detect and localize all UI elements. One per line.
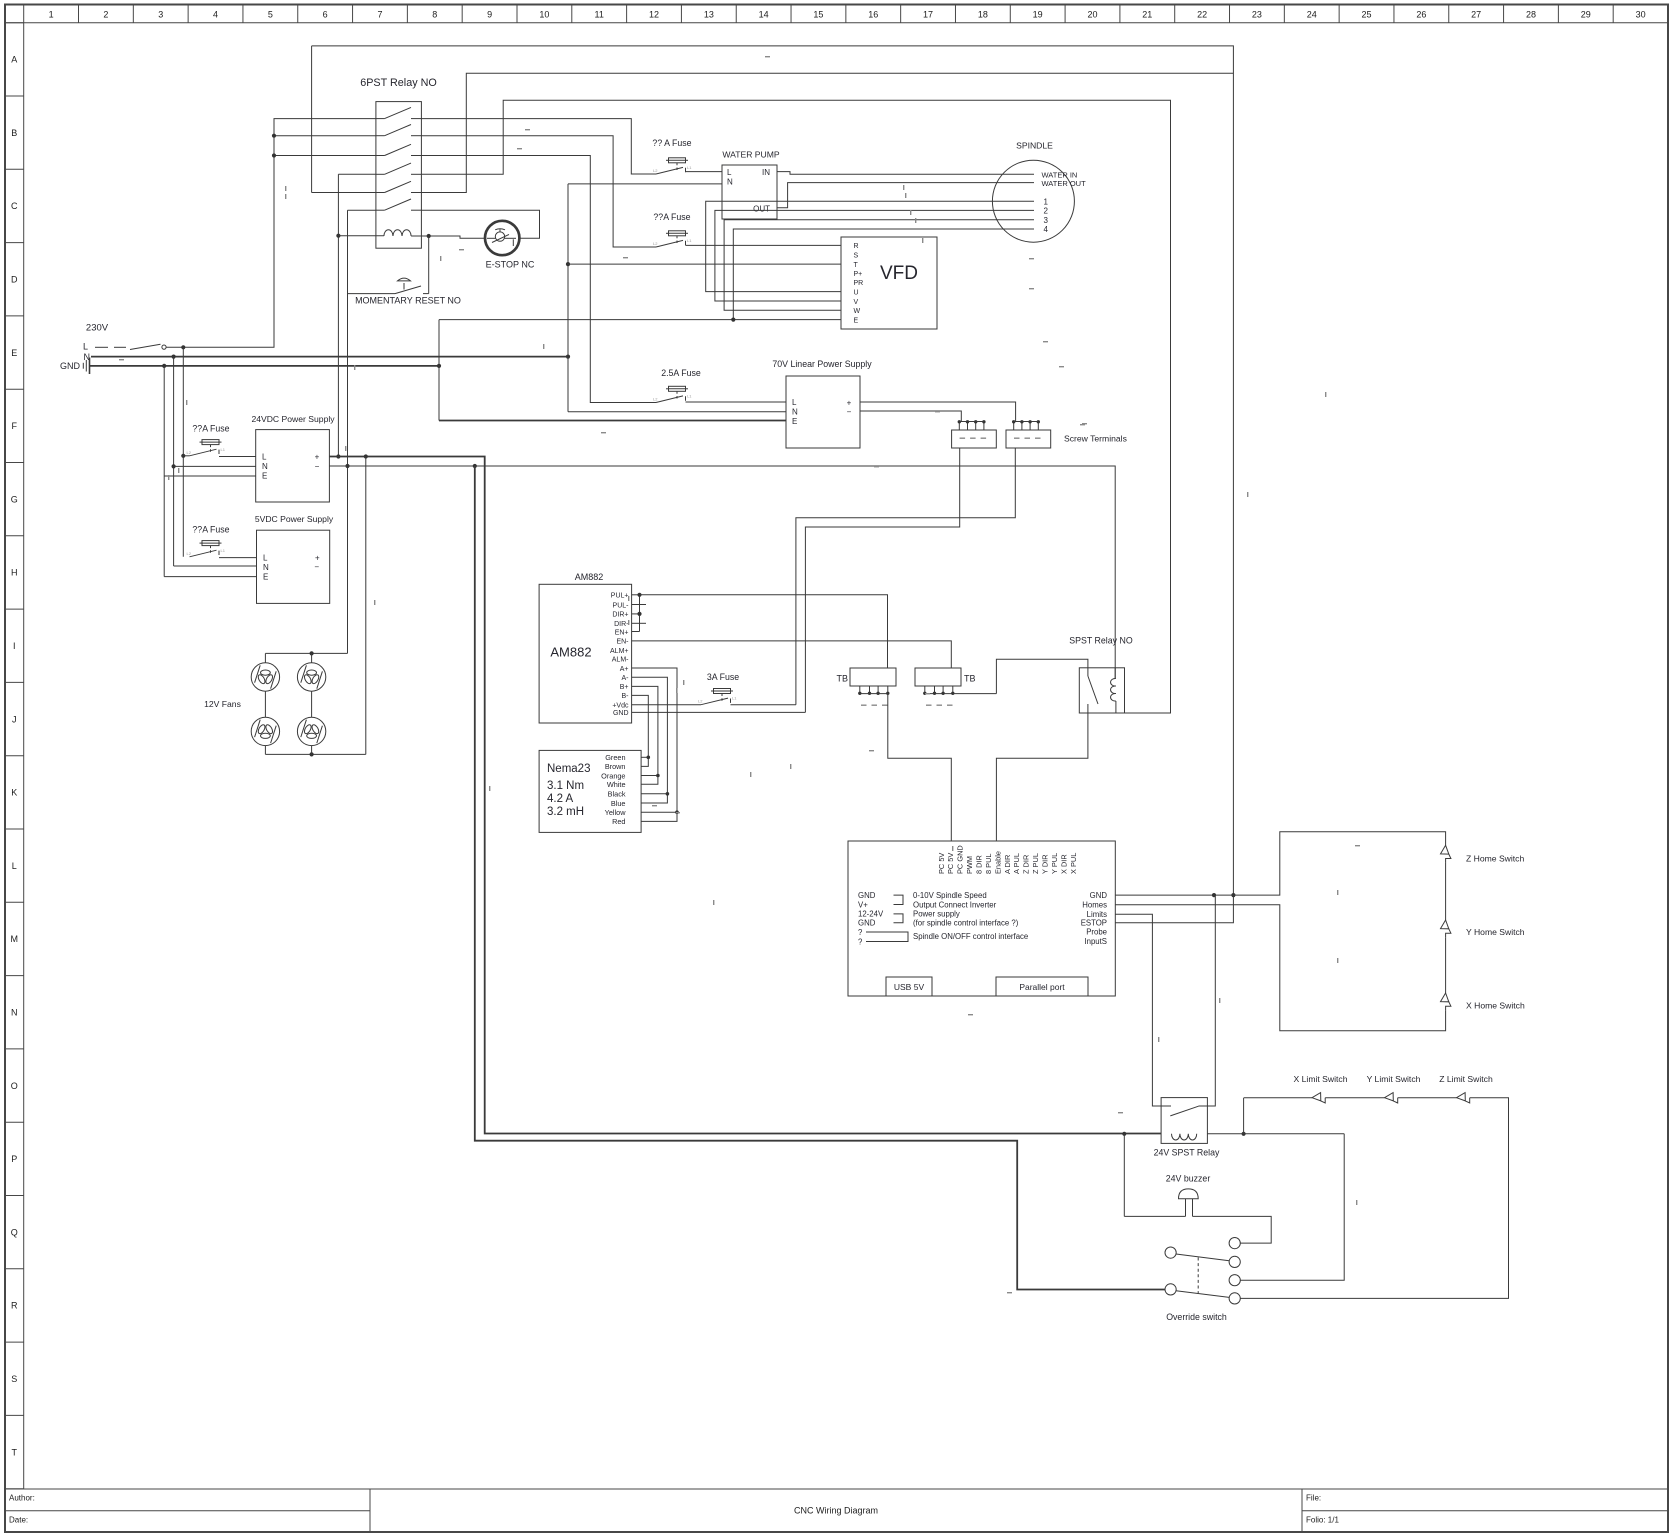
- svg-text:PC 5V: PC 5V: [946, 853, 955, 874]
- svg-text:16: 16: [868, 10, 878, 20]
- svg-text:5VDC Power Supply: 5VDC Power Supply: [255, 514, 334, 524]
- svg-text:A PUL: A PUL: [1012, 853, 1021, 874]
- fan M3: [251, 717, 279, 745]
- wire F4 to 24V L: [219, 456, 256, 458]
- svg-text:L2: L2: [187, 551, 192, 556]
- svg-text:E: E: [262, 472, 267, 481]
- svg-text:N: N: [727, 178, 733, 187]
- junction N to VFD-T / 70V: [566, 355, 570, 359]
- wire pump IN to spindle WATER IN: [777, 172, 1034, 175]
- wire VFD W to spindle 3: [724, 220, 1034, 311]
- svg-text:6PST Relay NO: 6PST Relay NO: [360, 77, 437, 89]
- svg-text:S: S: [11, 1374, 17, 1384]
- wire GND rail: [90, 365, 440, 367]
- svg-text:?: ?: [858, 928, 863, 937]
- svg-text:DIR-: DIR-: [614, 621, 629, 628]
- junction latch at -24: [345, 464, 349, 468]
- svg-text:V: V: [854, 299, 859, 306]
- svg-text:N: N: [792, 408, 798, 417]
- svg-text:USB 5V: USB 5V: [894, 982, 925, 992]
- wire GND drop: [163, 366, 165, 577]
- svg-text:R: R: [11, 1301, 18, 1311]
- wire K1 coil right to E-STOP: [411, 236, 485, 238]
- svg-text:VFD: VFD: [880, 263, 918, 284]
- wire buzzer left to coil tap: [1123, 1134, 1125, 1217]
- svg-text:X DIR: X DIR: [1059, 854, 1068, 874]
- svg-text:OUT: OUT: [753, 205, 770, 214]
- svg-text:Z Limit Switch: Z Limit Switch: [1439, 1074, 1493, 1084]
- svg-text:(for spindle control interface: (for spindle control interface ?): [913, 919, 1019, 928]
- svg-text:Black: Black: [608, 790, 626, 799]
- svg-text:Author:: Author:: [9, 1494, 35, 1503]
- wire VFD V to spindle 2: [715, 210, 1034, 301]
- svg-text:29: 29: [1581, 10, 1591, 20]
- wire F6 to riser: [731, 704, 796, 706]
- svg-text:24V buzzer: 24V buzzer: [1166, 1174, 1211, 1184]
- wire Z-Y home link: [1445, 863, 1447, 920]
- svg-text:TB: TB: [964, 674, 976, 684]
- svg-text:PWM: PWM: [965, 856, 974, 874]
- wire F4 left: [183, 455, 189, 457]
- wire N line: [91, 356, 568, 358]
- svg-text:10: 10: [539, 10, 549, 20]
- svg-text:1: 1: [1044, 197, 1049, 206]
- svg-text:WATER PUMP: WATER PUMP: [722, 150, 780, 160]
- wire 70V + to screw block 2: [860, 402, 1016, 422]
- svg-text:7: 7: [377, 10, 382, 20]
- wire buzzer right to override contact 1: [1193, 1216, 1272, 1243]
- junction buzzer tap: [1122, 1132, 1126, 1136]
- svg-text:19: 19: [1033, 10, 1043, 20]
- wire row6-left and latch vertical: [348, 209, 376, 211]
- svg-text:N: N: [11, 1007, 18, 1017]
- svg-text:N: N: [263, 563, 269, 572]
- svg-text:24V SPST Relay: 24V SPST Relay: [1154, 1148, 1220, 1158]
- wire DIR- stub: [632, 622, 646, 624]
- svg-text:??A Fuse: ??A Fuse: [653, 212, 690, 222]
- svg-text:Date:: Date:: [9, 1516, 28, 1525]
- svg-text:Y Limit Switch: Y Limit Switch: [1367, 1074, 1421, 1084]
- svg-text:??A Fuse: ??A Fuse: [192, 525, 229, 535]
- wire limit chain: [1244, 1097, 1312, 1099]
- svg-text:IN: IN: [762, 168, 770, 177]
- wire B+ to Orange/White: [632, 686, 658, 784]
- svg-text:PUL-: PUL-: [613, 602, 630, 609]
- svg-text:Override switch: Override switch: [1166, 1312, 1227, 1322]
- svg-text:Z Home Switch: Z Home Switch: [1466, 854, 1524, 864]
- svg-text:?? A Fuse: ?? A Fuse: [652, 138, 691, 148]
- svg-text:ALM-: ALM-: [612, 657, 629, 664]
- svg-text:11: 11: [595, 10, 604, 20]
- junction -24 long rail tap: [473, 464, 477, 468]
- wire fan stubs: [264, 653, 266, 662]
- svg-text:L2: L2: [653, 397, 658, 402]
- wire TB2 up to SPST relay contact: [996, 659, 1088, 693]
- svg-text:V+: V+: [858, 900, 868, 909]
- svg-text:L: L: [263, 554, 268, 563]
- svg-text:6: 6: [323, 10, 328, 20]
- svg-text:3A Fuse: 3A Fuse: [707, 672, 739, 682]
- svg-text:U: U: [854, 289, 859, 296]
- wire Black stub: [641, 793, 667, 795]
- svg-text:Y DIR: Y DIR: [1041, 854, 1050, 874]
- svg-text:Spindle ON/OFF control interfa: Spindle ON/OFF control interface: [913, 932, 1028, 941]
- svg-text:24VDC Power Supply: 24VDC Power Supply: [251, 414, 335, 424]
- junction F4 tap: [181, 454, 185, 458]
- svg-text:X Limit Switch: X Limit Switch: [1294, 1074, 1348, 1084]
- wire 70V N input: [568, 411, 786, 413]
- svg-text:L1: L1: [221, 447, 226, 452]
- wire 70V - to screw block 1: [860, 411, 961, 422]
- svg-text:L2: L2: [698, 699, 703, 704]
- junction N-vert at VFD T: [566, 262, 570, 266]
- svg-text:Output Connect Inverter: Output Connect Inverter: [913, 900, 997, 909]
- svg-text:L: L: [792, 398, 797, 407]
- svg-text:ALM+: ALM+: [610, 648, 628, 655]
- svg-text:Brown: Brown: [605, 762, 626, 771]
- svg-text:4: 4: [213, 10, 218, 20]
- svg-text:L: L: [262, 453, 267, 462]
- junction GND at VFD-E drop: [437, 364, 441, 368]
- wire TB1 to controller: [888, 694, 952, 841]
- junction Orange: [656, 774, 660, 778]
- junction at +24 tap: [336, 454, 340, 458]
- svg-text:Screw Terminals: Screw Terminals: [1064, 434, 1127, 444]
- svg-text:+Vdc: +Vdc: [612, 703, 629, 710]
- svg-text:0-10V Spindle Speed: 0-10V Spindle Speed: [913, 891, 987, 900]
- wire row4-right to SPST relay right side: [421, 100, 1170, 713]
- junction Green: [647, 756, 651, 760]
- svg-text:18: 18: [978, 10, 988, 20]
- svg-text:Probe: Probe: [1086, 928, 1107, 937]
- svg-text:−: −: [847, 408, 852, 417]
- wire relay row2-right to F2: [421, 136, 656, 247]
- relay K2 coil: [1111, 678, 1116, 701]
- junction bracket PUL+: [637, 593, 641, 597]
- wire pump N return: [568, 183, 722, 185]
- svg-text:Parallel port: Parallel port: [1019, 982, 1065, 992]
- svg-text:B+: B+: [620, 684, 629, 691]
- wire Y-X home link: [1445, 937, 1447, 993]
- junction fans top: [310, 651, 314, 655]
- wire screw2 to AM882 +Vdc riser: [796, 448, 1015, 705]
- svg-text:8 PUL: 8 PUL: [984, 853, 993, 874]
- svg-text:2: 2: [1044, 207, 1049, 216]
- svg-text:A: A: [11, 55, 17, 65]
- wire K1 coil left to +24: [338, 173, 376, 175]
- wire N to VFD T: [568, 263, 841, 265]
- junction fans feed: [364, 454, 368, 458]
- svg-text:L2: L2: [653, 241, 658, 246]
- svg-text:L: L: [83, 342, 88, 352]
- svg-text:2.5A Fuse: 2.5A Fuse: [661, 368, 701, 378]
- junction coil-right: [427, 234, 431, 238]
- wire 24V E input: [164, 475, 256, 477]
- wire SPST relay contact return to controller: [996, 704, 1088, 841]
- svg-text:Green: Green: [605, 753, 625, 762]
- fan M1: [251, 663, 279, 691]
- wire top rail from 6PST relay row5-left to right page rail: [312, 46, 1234, 923]
- svg-text:21: 21: [1142, 10, 1152, 20]
- svg-text:−: −: [314, 563, 319, 572]
- wire L drop to F4 and F5: [182, 347, 184, 557]
- svg-text:L1: L1: [687, 394, 692, 399]
- wire +24 output rail: [329, 457, 1161, 1134]
- wire screw1 to AM882 GND riser: [805, 448, 959, 712]
- svg-text:GND: GND: [858, 891, 876, 900]
- junction chain riser: [1242, 1132, 1246, 1136]
- wire F2 to VFD R: [686, 244, 842, 246]
- svg-text:InputS: InputS: [1084, 937, 1107, 946]
- svg-text:R: R: [854, 243, 859, 250]
- junction row3-left: [272, 153, 276, 157]
- switch Y Limit Switch: [1385, 1093, 1394, 1101]
- svg-text:8: 8: [432, 10, 437, 20]
- wire row5-left vertical: [311, 46, 313, 193]
- svg-text:+: +: [847, 399, 852, 408]
- svg-text:22: 22: [1197, 10, 1207, 20]
- svg-text:I: I: [13, 641, 16, 651]
- junction coil-left: [336, 234, 340, 238]
- svg-text:L1: L1: [221, 548, 226, 553]
- svg-text:White: White: [607, 780, 626, 789]
- wire relay row3-right to F3: [421, 156, 656, 403]
- relay K1 coil: [384, 230, 411, 236]
- svg-text:PC 5V: PC 5V: [937, 853, 946, 874]
- wire row6-right to E-STOP top: [421, 210, 539, 238]
- svg-text:P+: P+: [854, 271, 863, 278]
- wire EN- to TB2: [632, 641, 952, 668]
- terminal block TB1: [850, 668, 896, 686]
- svg-text:E-STOP NC: E-STOP NC: [486, 260, 535, 270]
- svg-text:A-: A-: [622, 675, 630, 682]
- svg-text:3.1 Nm: 3.1 Nm: [547, 780, 584, 792]
- wire 5V E input: [164, 576, 256, 578]
- svg-text:4: 4: [1044, 225, 1049, 234]
- svg-text:E: E: [792, 417, 797, 426]
- wire earth to 70V E: [439, 420, 786, 422]
- wire +Vdc to F6: [632, 704, 701, 706]
- svg-text:1: 1: [49, 10, 54, 20]
- svg-text:3: 3: [1044, 216, 1049, 225]
- svg-text:AM882: AM882: [550, 645, 591, 660]
- svg-text:TB: TB: [836, 674, 848, 684]
- wire GND to riser: [632, 711, 806, 713]
- svg-text:L: L: [12, 861, 17, 871]
- svg-text:30: 30: [1636, 10, 1646, 20]
- svg-text:L1: L1: [687, 238, 692, 243]
- svg-text:O: O: [11, 1081, 18, 1091]
- svg-text:??A Fuse: ??A Fuse: [192, 424, 229, 434]
- junction Yellow: [675, 810, 679, 814]
- wire pump OUT to spindle WATER OUT: [777, 183, 1034, 208]
- svg-text:WATER OUT: WATER OUT: [1042, 179, 1087, 188]
- junction row2-left: [272, 134, 276, 138]
- svg-text:2: 2: [103, 10, 108, 20]
- wire L to relay contacts 1-3 vertical: [167, 119, 376, 348]
- svg-text:G: G: [11, 494, 18, 504]
- wire B- to Green/Brown: [632, 695, 649, 766]
- svg-text:Z DIR: Z DIR: [1022, 855, 1031, 874]
- wire X-Y limit link: [1325, 1097, 1384, 1099]
- svg-text:J: J: [12, 714, 17, 724]
- svg-text:14: 14: [759, 10, 769, 20]
- svg-text:70V Linear Power Supply: 70V Linear Power Supply: [772, 359, 872, 369]
- svg-text:27: 27: [1471, 10, 1481, 20]
- svg-text:28: 28: [1526, 10, 1536, 20]
- wire fans bottom bus: [265, 753, 365, 755]
- svg-text:13: 13: [704, 10, 714, 20]
- svg-text:GND: GND: [1090, 891, 1108, 900]
- svg-text:File:: File:: [1306, 1494, 1321, 1503]
- svg-text:F: F: [12, 421, 18, 431]
- svg-text:SPST Relay NO: SPST Relay NO: [1069, 636, 1133, 646]
- svg-text:E: E: [263, 573, 268, 582]
- block VFD: [841, 237, 937, 329]
- wire relay row2-left stub: [274, 135, 376, 137]
- junction L at fuse drop: [181, 345, 185, 349]
- switch on L line: [95, 346, 108, 348]
- wire A- to Black/Blue: [632, 677, 668, 803]
- junction 24V N: [172, 464, 176, 468]
- svg-text:T: T: [12, 1447, 18, 1457]
- terminal block TB2: [915, 668, 961, 686]
- svg-text:12: 12: [649, 10, 659, 20]
- svg-text:Red: Red: [612, 817, 625, 826]
- svg-text:12-24V: 12-24V: [858, 910, 884, 919]
- svg-text:3.2 mH: 3.2 mH: [547, 806, 584, 818]
- svg-text:CNC Wiring Diagram: CNC Wiring Diagram: [794, 1506, 878, 1516]
- motor M5 Nema23: [539, 750, 641, 832]
- wire VFD E to spindle 4 and GND rail: [439, 319, 841, 321]
- svg-text:PC GND: PC GND: [956, 845, 965, 874]
- junction bracket DIR+: [637, 612, 641, 616]
- wire 24V relay contact return: [1207, 895, 1215, 1106]
- junction N to supplies: [172, 355, 176, 359]
- svg-text:26: 26: [1416, 10, 1426, 20]
- wire PUL+ trunk to TB1: [640, 595, 888, 668]
- svg-text:AM882: AM882: [575, 572, 604, 582]
- wire Yellow stub: [641, 811, 677, 813]
- wire 5V N input: [174, 565, 257, 567]
- junction on right rail at controller GND row: [1231, 893, 1235, 897]
- svg-text:E: E: [854, 317, 859, 324]
- svg-text:+: +: [315, 453, 320, 462]
- wire -24 long rail: [475, 466, 1165, 1290]
- svg-text:Z PUL: Z PUL: [1031, 853, 1040, 874]
- port Parallel port: [996, 977, 1088, 996]
- svg-text:X Home Switch: X Home Switch: [1466, 1001, 1525, 1011]
- wire chain end to override contact 4: [1240, 1098, 1508, 1299]
- svg-text:PR: PR: [854, 280, 864, 287]
- svg-text:3: 3: [158, 10, 163, 20]
- wire Y-Z limit link: [1398, 1097, 1457, 1099]
- junction VFD-E spindle4: [731, 318, 735, 322]
- svg-text:DIR+: DIR+: [612, 612, 628, 619]
- svg-text:GND: GND: [613, 710, 629, 717]
- wire 24V N input: [174, 465, 256, 467]
- svg-text:Y PUL: Y PUL: [1050, 853, 1059, 874]
- svg-text:23: 23: [1252, 10, 1262, 20]
- svg-text:−: −: [315, 462, 320, 471]
- wire Orange stub: [641, 775, 658, 777]
- controller board CNC interface: [848, 841, 1115, 996]
- svg-text:Blue: Blue: [611, 799, 626, 808]
- fan M4: [297, 717, 325, 745]
- svg-text:5: 5: [268, 10, 273, 20]
- terminal block screw terminals 1: [952, 430, 997, 448]
- title block: [5, 1488, 1668, 1490]
- svg-text:MOMENTARY RESET NO: MOMENTARY RESET NO: [355, 296, 461, 306]
- svg-text:D: D: [11, 274, 18, 284]
- svg-text:S: S: [854, 253, 859, 260]
- svg-text:B-: B-: [622, 693, 630, 700]
- wire N drop: [173, 357, 175, 566]
- wire fans top bus: [265, 652, 347, 654]
- wire VFD U to spindle 1: [706, 201, 1034, 291]
- wire Limits row to 24V relay: [1115, 914, 1171, 1106]
- svg-text:E: E: [11, 348, 17, 358]
- switch X Home Switch: [1441, 993, 1449, 1002]
- svg-text:L2: L2: [187, 450, 192, 455]
- svg-text:L2: L2: [653, 168, 658, 173]
- svg-text:8 DIR: 8 DIR: [975, 855, 984, 874]
- wire F3 to 70V L: [686, 401, 787, 403]
- svg-text:Y Home Switch: Y Home Switch: [1466, 927, 1525, 937]
- svg-text:20: 20: [1087, 10, 1097, 20]
- terminal block screw terminals 2: [1006, 430, 1051, 448]
- svg-text:Yellow: Yellow: [605, 808, 627, 817]
- relay K3 coil: [1172, 1134, 1197, 1140]
- svg-text:L: L: [727, 168, 732, 177]
- wire relay row3-left stub: [274, 155, 376, 157]
- switch Y Home Switch: [1441, 920, 1449, 929]
- svg-text:17: 17: [923, 10, 933, 20]
- svg-text:25: 25: [1362, 10, 1372, 20]
- svg-text:A+: A+: [620, 666, 629, 673]
- svg-text:Q: Q: [11, 1227, 18, 1237]
- svg-text:Enable: Enable: [993, 851, 1002, 874]
- svg-text:L1: L1: [732, 696, 737, 701]
- svg-text:4.2 A: 4.2 A: [547, 793, 574, 805]
- junction Black: [666, 792, 670, 796]
- svg-text:T: T: [854, 262, 859, 269]
- svg-text:SPINDLE: SPINDLE: [1016, 141, 1053, 151]
- wire PUL- stub: [632, 604, 646, 606]
- wire second rail row5-right loop: [421, 73, 1233, 192]
- svg-text:K: K: [11, 788, 17, 798]
- switch Z Limit Switch: [1457, 1093, 1466, 1101]
- wire coil-left stub: [338, 235, 384, 237]
- svg-text:Folio: 1/1: Folio: 1/1: [1306, 1516, 1339, 1525]
- switch X Limit Switch: [1312, 1093, 1321, 1101]
- port USB 5V: [886, 977, 932, 996]
- wire Homes row return: [1115, 905, 1445, 1031]
- wire number marks: [765, 56, 770, 57]
- wire -24 output to SPST relay coil: [329, 466, 1115, 679]
- svg-text:L1: L1: [687, 165, 692, 170]
- svg-text:?: ?: [858, 937, 863, 946]
- svg-text:230V: 230V: [86, 323, 109, 334]
- wire Green stub: [641, 756, 648, 758]
- junction GND-relay return: [1212, 893, 1216, 897]
- svg-text:24: 24: [1307, 10, 1317, 20]
- svg-text:+: +: [315, 554, 320, 563]
- svg-text:X PUL: X PUL: [1069, 853, 1078, 874]
- junction GND to supplies: [162, 364, 166, 368]
- fan M2: [297, 663, 325, 691]
- wire F5 to 5V L: [219, 557, 257, 559]
